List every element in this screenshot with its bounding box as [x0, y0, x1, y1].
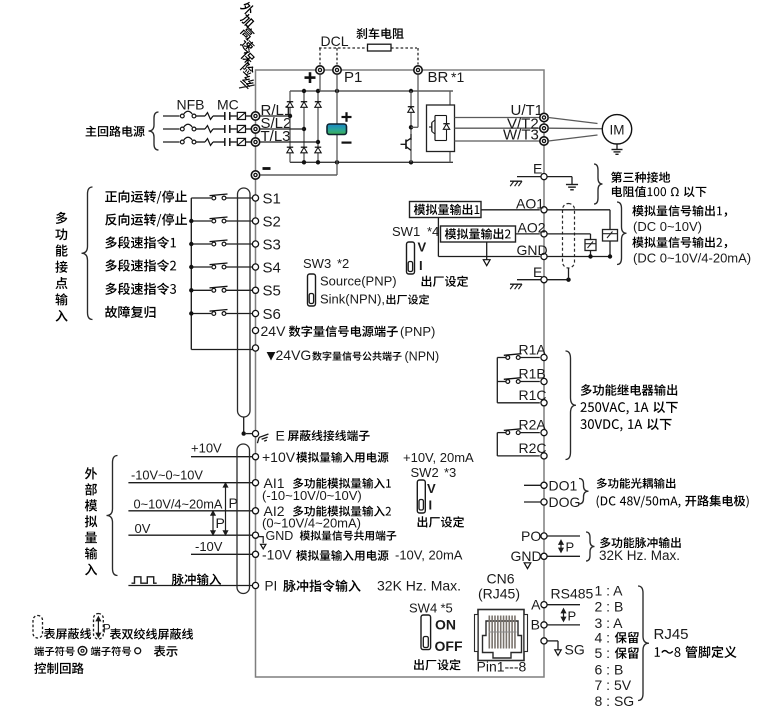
- svg-text:R2C: R2C: [519, 440, 547, 456]
- svg-text:32K Hz. Max.: 32K Hz. Max.: [377, 578, 461, 594]
- svg-text:AO1: AO1: [516, 195, 544, 211]
- svg-text:B: B: [531, 616, 540, 632]
- svg-text:+10V, 20mA: +10V, 20mA: [403, 450, 474, 465]
- svg-text:BR: BR: [428, 69, 449, 86]
- svg-text:R1B: R1B: [519, 366, 546, 382]
- svg-text:-10V: -10V: [195, 539, 223, 554]
- svg-text:P: P: [566, 540, 575, 555]
- svg-text:W/T3: W/T3: [503, 126, 539, 143]
- svg-text:-10V~0~10V: -10V~0~10V: [131, 468, 203, 483]
- svg-text:Sink(NPN),: Sink(NPN),: [320, 292, 385, 307]
- svg-text:24V: 24V: [261, 323, 287, 339]
- svg-text:Source(PNP): Source(PNP): [320, 274, 397, 289]
- svg-text:SW3: SW3: [303, 256, 331, 271]
- svg-text:E: E: [533, 161, 542, 177]
- svg-text:R2A: R2A: [519, 417, 547, 433]
- svg-text:ON: ON: [435, 617, 456, 633]
- svg-text:DOG: DOG: [549, 494, 581, 510]
- svg-text:(PNP): (PNP): [400, 324, 435, 339]
- svg-text:I: I: [429, 498, 433, 513]
- svg-text:S3: S3: [263, 236, 281, 253]
- svg-text:*2: *2: [337, 256, 349, 271]
- svg-text:*4: *4: [427, 224, 439, 239]
- svg-text:A: A: [531, 596, 541, 612]
- svg-text:R1C: R1C: [519, 387, 547, 403]
- svg-text:V: V: [418, 240, 427, 255]
- svg-text:(NPN): (NPN): [405, 349, 440, 363]
- svg-text:24VG: 24VG: [276, 347, 312, 363]
- svg-text:SG: SG: [565, 642, 585, 658]
- svg-text:GND: GND: [517, 242, 548, 258]
- svg-text:8 : SG: 8 : SG: [595, 693, 635, 709]
- svg-text:(DC 0~10V/4-20mA): (DC 0~10V/4-20mA): [633, 251, 751, 266]
- svg-text:6 : B: 6 : B: [595, 662, 624, 678]
- svg-text:+10V: +10V: [191, 440, 222, 455]
- svg-text:CN6: CN6: [487, 571, 515, 587]
- svg-text:IM: IM: [610, 122, 625, 137]
- svg-text:*3: *3: [444, 465, 456, 480]
- svg-text:P: P: [216, 515, 225, 531]
- svg-text:NFB: NFB: [177, 97, 205, 113]
- svg-text:*5: *5: [441, 601, 453, 616]
- svg-text:E: E: [276, 427, 285, 443]
- svg-text:1 : A: 1 : A: [595, 583, 624, 599]
- svg-text:2 : B: 2 : B: [595, 598, 624, 614]
- svg-text:V: V: [427, 481, 436, 496]
- svg-text:SW1: SW1: [392, 224, 420, 239]
- svg-text:S4: S4: [263, 259, 281, 276]
- svg-text:0~10V/4~20mA: 0~10V/4~20mA: [134, 496, 223, 511]
- svg-text:SW2: SW2: [411, 465, 439, 480]
- svg-text:S2: S2: [263, 213, 281, 230]
- svg-text:SW4: SW4: [409, 601, 437, 616]
- svg-text:(-10~10V/0~10V): (-10~10V/0~10V): [262, 488, 362, 503]
- svg-text:S5: S5: [263, 283, 281, 300]
- svg-text:(RJ45): (RJ45): [478, 586, 520, 602]
- svg-text:PI: PI: [265, 579, 278, 594]
- svg-text:0V: 0V: [135, 521, 151, 536]
- svg-text:4 :: 4 :: [595, 629, 611, 645]
- svg-text:P1: P1: [344, 69, 362, 86]
- svg-text:S1: S1: [263, 190, 281, 207]
- svg-text:RS485: RS485: [551, 586, 594, 602]
- svg-text:AO2: AO2: [518, 220, 546, 236]
- svg-text:OFF: OFF: [435, 638, 463, 654]
- svg-text:E: E: [533, 264, 542, 280]
- svg-text:S6: S6: [263, 306, 281, 323]
- svg-text:32K Hz. Max.: 32K Hz. Max.: [599, 548, 680, 563]
- svg-text:P: P: [568, 608, 577, 623]
- svg-text:5 :: 5 :: [595, 645, 611, 661]
- svg-text:PO: PO: [521, 528, 541, 544]
- svg-text:-10V: -10V: [262, 546, 292, 562]
- svg-text:P: P: [103, 622, 111, 636]
- svg-text:-10V, 20mA: -10V, 20mA: [395, 547, 463, 562]
- svg-text:+10V: +10V: [262, 449, 296, 465]
- svg-text:Pin1---8: Pin1---8: [477, 659, 527, 675]
- svg-text:*1: *1: [451, 69, 464, 85]
- svg-text:(DC 0~10V): (DC 0~10V): [633, 219, 702, 234]
- svg-text:I: I: [419, 258, 423, 273]
- svg-text:DO1: DO1: [549, 477, 578, 493]
- svg-text:MC: MC: [217, 97, 239, 113]
- svg-text:GND: GND: [511, 548, 542, 564]
- svg-text:RJ45: RJ45: [654, 626, 689, 643]
- svg-text:R1A: R1A: [519, 342, 547, 358]
- svg-text:7 : 5V: 7 : 5V: [595, 677, 632, 693]
- svg-text:GND: GND: [266, 529, 294, 543]
- svg-text:DCL: DCL: [321, 33, 349, 49]
